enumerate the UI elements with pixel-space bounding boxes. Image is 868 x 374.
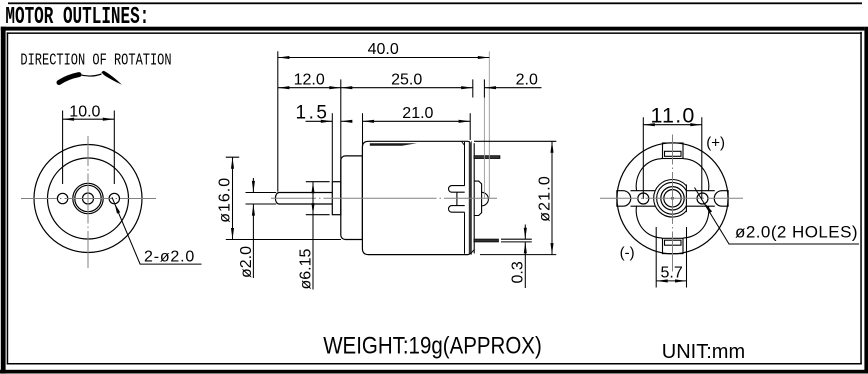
dimension 21.0 left arrow bbox=[363, 120, 375, 123]
dimension o16.0 bottom arrow bbox=[231, 228, 234, 240]
dimension 10.0 left arrow bbox=[63, 118, 75, 121]
dimension o21.0 top arrow bbox=[550, 141, 553, 153]
extension tick can left bbox=[362, 113, 364, 155]
svg-text:ø16.0: ø16.0 bbox=[216, 177, 233, 223]
label weight bbox=[323, 332, 542, 359]
svg-text:(-): (-) bbox=[620, 245, 635, 262]
extension tick cover face bbox=[472, 79, 474, 97]
dimension o21.0 extension lines bbox=[474, 141, 556, 254]
rear view bar lines bbox=[631, 191, 715, 207]
dimension 1.5 left line bbox=[306, 120, 333, 122]
dimension 40.0 right arrow bbox=[478, 56, 490, 59]
rear view window chord bbox=[685, 185, 687, 213]
rear view window outer arc bbox=[654, 180, 687, 218]
rotation arrow thin arc bbox=[79, 74, 102, 76]
front view right mounting hole bbox=[109, 193, 119, 203]
dimension 11.0 left arrow bbox=[643, 123, 655, 126]
dimension 0.3 bottom arrow bbox=[524, 242, 527, 254]
dimension 12.0 left arrow bbox=[278, 86, 290, 89]
svg-text:5.7: 5.7 bbox=[661, 264, 683, 281]
side view can vent slot bbox=[370, 143, 417, 146]
extension line bushing left bbox=[331, 113, 333, 181]
rear view lower arch right bbox=[683, 206, 709, 239]
dimension o16.0 extension ticks bbox=[226, 157, 341, 239]
svg-text:(+): (+) bbox=[706, 135, 725, 152]
dimension 5.7 line bbox=[656, 280, 686, 282]
dimension 11.0 line bbox=[643, 124, 702, 126]
rear view outer circle bbox=[617, 143, 728, 254]
dimension 0.3 text bbox=[509, 261, 526, 283]
dimension 40.0 line bbox=[278, 57, 489, 59]
front view horizontal centerline bbox=[21, 198, 156, 200]
rear view right hole bbox=[697, 193, 708, 204]
rear view bearing circle inner bbox=[664, 190, 681, 207]
frame bottom thin line bbox=[7, 363, 862, 365]
dimension 10.0 extension lines bbox=[63, 111, 115, 185]
dimension 25.0 left arrow bbox=[341, 86, 353, 89]
dimension o21.0 bottom arrow bbox=[550, 243, 553, 255]
dimension o21.0 text bbox=[536, 175, 553, 222]
front view vertical centerline bbox=[87, 136, 89, 268]
extension tick 2.0 bbox=[483, 79, 485, 97]
rear view vertical centerline bbox=[672, 135, 674, 273]
rear view bottom slot outer rect bbox=[663, 238, 684, 253]
frame divider under title bbox=[1, 27, 865, 31]
svg-text:12.0: 12.0 bbox=[294, 72, 325, 89]
side view cover corner chamfers bbox=[462, 142, 474, 255]
frame inner left thin line bbox=[7, 32, 9, 364]
rear view right ear bbox=[714, 191, 728, 207]
svg-text:UNIT:mm: UNIT:mm bbox=[662, 341, 745, 363]
front view boss outer circle bbox=[73, 183, 103, 213]
side view rear inner edge line bbox=[464, 142, 466, 254]
frame inner top thin line bbox=[7, 32, 862, 34]
extension line bushing face bbox=[340, 79, 342, 181]
dimension 10.0 line bbox=[63, 118, 115, 120]
rear view window inner arc bbox=[657, 183, 687, 215]
rear view bottom slot inner rect bbox=[665, 240, 682, 245]
dimension o6.15 bottom arrow bbox=[311, 203, 314, 215]
dimension o2.0 top arrow bbox=[252, 181, 255, 193]
dimension o21.0 line bbox=[551, 141, 553, 254]
side view shaft diameter extension lines bbox=[246, 193, 277, 205]
dimension 25.0 line bbox=[341, 87, 473, 89]
dimension 11.0 extension lines bbox=[643, 117, 702, 199]
front view outer circle bbox=[34, 145, 142, 253]
leader o2.0 holes arrow bbox=[705, 204, 712, 213]
dimension o16.0 line bbox=[232, 157, 234, 239]
rear view bearing circle outer bbox=[661, 187, 684, 210]
dimension o2.0 lines bbox=[252, 178, 254, 278]
side view end cap bbox=[341, 156, 363, 240]
dimension o6.15 text bbox=[297, 248, 314, 289]
svg-text:ø2.0: ø2.0 bbox=[238, 246, 255, 278]
extension gray line 40.0 right bbox=[488, 51, 490, 199]
side view bushing bbox=[332, 182, 341, 215]
dimension 40.0 left arrow bbox=[278, 56, 290, 59]
svg-text:ø6.15: ø6.15 bbox=[297, 248, 314, 289]
rear view bearing center dot bbox=[671, 197, 674, 200]
rear view group bbox=[617, 143, 728, 254]
svg-text:WEIGHT:19g(APPROX): WEIGHT:19g(APPROX) bbox=[323, 332, 542, 359]
dimension o16.0 top arrow bbox=[231, 157, 234, 169]
side view can crimp double line bbox=[469, 141, 471, 254]
rear view top slot inner rect bbox=[665, 151, 682, 156]
dimension 0.3 lines bbox=[524, 225, 526, 289]
dimension 12.0 right arrow bbox=[329, 86, 341, 89]
extension gray line 2.0 bbox=[483, 98, 485, 200]
svg-text:ø2.0(2 HOLES): ø2.0(2 HOLES) bbox=[735, 222, 858, 241]
svg-text:ø21.0: ø21.0 bbox=[536, 175, 553, 222]
dimension 10.0 right arrow bbox=[103, 118, 115, 121]
extension tick can right bbox=[469, 113, 471, 140]
dimension o2.0 bottom arrow bbox=[252, 204, 255, 216]
dimension o2.0 text bbox=[238, 246, 255, 278]
dimension 25.0 right arrow bbox=[461, 86, 473, 89]
svg-text:0.3: 0.3 bbox=[509, 261, 526, 283]
front view left mounting hole bbox=[57, 193, 67, 203]
rear view horizontal centerline bbox=[600, 197, 744, 199]
front view group bbox=[34, 145, 142, 253]
dimension 2.0 arrow bbox=[485, 86, 497, 89]
svg-text:2.0: 2.0 bbox=[516, 71, 538, 88]
title MOTOR OUTLINES bbox=[5, 4, 149, 31]
dimension 12.0 line bbox=[278, 87, 341, 89]
side view rear cover face bbox=[473, 143, 475, 253]
side view lower brush finger bbox=[449, 206, 465, 213]
side view upper brush finger bbox=[449, 186, 465, 193]
svg-text:10.0: 10.0 bbox=[69, 103, 100, 120]
dimension 1.5 right arrow bbox=[341, 120, 353, 123]
dimension 11.0 right arrow bbox=[690, 123, 702, 126]
frame top thin line bbox=[8, 2, 862, 4]
frame right thick bar bbox=[864, 27, 868, 374]
leader o2.0 holes line bbox=[695, 188, 860, 245]
label DIRECTION OF ROTATION bbox=[20, 52, 171, 70]
dimension o6.15 extension lines bbox=[306, 182, 330, 215]
svg-text:25.0: 25.0 bbox=[391, 72, 422, 89]
side view top terminal bbox=[474, 156, 500, 159]
frame left thick bar bbox=[1, 27, 6, 374]
leader 2-o2.0 arrow bbox=[115, 204, 121, 214]
rotation arrow tail stroke bbox=[59, 75, 79, 83]
dimension 1.5 right line bbox=[341, 120, 353, 122]
rear view left ear bbox=[617, 191, 631, 207]
leader 2-o2.0 line bbox=[112, 197, 202, 264]
dimension 1.5 left arrow bbox=[321, 120, 333, 123]
svg-text:11.0: 11.0 bbox=[651, 103, 696, 127]
dimension o6.15 line bbox=[312, 182, 314, 290]
dimension o6.15 top arrow bbox=[311, 182, 314, 194]
extension line shaft tip bbox=[277, 51, 279, 191]
dimension 0.3 extension lines bbox=[501, 239, 532, 242]
rear view upper arch right bbox=[683, 158, 709, 191]
dimension 5.7 right arrow bbox=[675, 279, 687, 282]
dimension 5.7 extension lines bbox=[656, 227, 686, 288]
side view brush block edge bbox=[456, 192, 458, 205]
side view shaft bbox=[275, 193, 332, 205]
side view bottom terminal bbox=[474, 239, 499, 242]
front view shaft circle bbox=[83, 193, 94, 204]
dimension o16.0 text bbox=[216, 177, 233, 223]
svg-text:2-ø2.0: 2-ø2.0 bbox=[144, 248, 195, 265]
side view can body bbox=[362, 141, 470, 254]
dimension 21.0 line bbox=[363, 120, 471, 122]
side view axis centerline bbox=[271, 197, 497, 199]
dimension 21.0 right arrow bbox=[459, 120, 471, 123]
dimension 2.0 line bbox=[485, 87, 542, 89]
rear view lower arch left bbox=[636, 206, 662, 239]
rear view top slot outer rect bbox=[663, 143, 684, 159]
svg-text:DIRECTION OF ROTATION: DIRECTION OF ROTATION bbox=[20, 52, 171, 70]
side view rear bearing boss bbox=[474, 181, 482, 215]
front view boss inner circle bbox=[75, 185, 101, 211]
side view rear bearing nub bbox=[482, 192, 489, 206]
svg-text:40.0: 40.0 bbox=[368, 41, 399, 58]
dimension 5.7 left arrow bbox=[656, 279, 668, 282]
frame right thin line bbox=[860, 32, 862, 365]
front view inner circle bbox=[48, 158, 129, 239]
rotation arrow head bbox=[101, 71, 122, 85]
rear view left hole bbox=[638, 193, 649, 204]
dimension 0.3 top arrow bbox=[524, 228, 527, 240]
svg-text:21.0: 21.0 bbox=[402, 105, 433, 122]
rear view upper arch left bbox=[636, 158, 662, 191]
svg-text:1.5: 1.5 bbox=[296, 102, 330, 123]
frame bottom thick bar bbox=[0, 370, 868, 374]
